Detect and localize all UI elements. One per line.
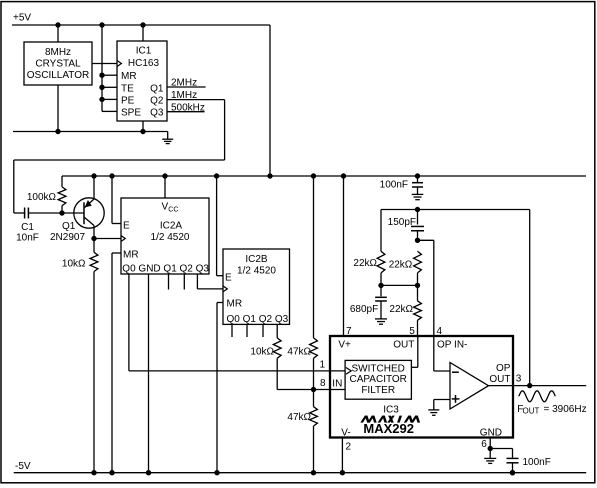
svg-text:6: 6 bbox=[481, 439, 487, 450]
svg-text:IC2A: IC2A bbox=[160, 220, 183, 231]
svg-text:2N2907: 2N2907 bbox=[50, 232, 85, 243]
svg-text:4: 4 bbox=[437, 326, 443, 337]
svg-text:OP IN-: OP IN- bbox=[437, 339, 467, 350]
svg-text:Q3: Q3 bbox=[150, 107, 164, 118]
svg-text:CRYSTAL: CRYSTAL bbox=[35, 59, 81, 70]
svg-text:E: E bbox=[123, 220, 130, 231]
svg-text:7: 7 bbox=[346, 326, 352, 337]
svg-text:100nF: 100nF bbox=[523, 457, 551, 468]
svg-text:10kΩ: 10kΩ bbox=[62, 259, 86, 270]
svg-text:V+: V+ bbox=[338, 339, 351, 350]
svg-text:10nF: 10nF bbox=[16, 233, 39, 244]
svg-text:MAX292: MAX292 bbox=[363, 421, 414, 436]
svg-text:47kΩ: 47kΩ bbox=[287, 347, 311, 358]
svg-text:SPE: SPE bbox=[121, 107, 141, 118]
svg-text:1/2 4520: 1/2 4520 bbox=[237, 265, 276, 276]
svg-text:1MHz: 1MHz bbox=[171, 90, 197, 101]
svg-text:47kΩ: 47kΩ bbox=[287, 412, 311, 423]
svg-text:100kΩ: 100kΩ bbox=[27, 192, 57, 203]
svg-text:2MHz: 2MHz bbox=[171, 78, 197, 89]
svg-text:MR: MR bbox=[121, 71, 137, 82]
svg-text:V-: V- bbox=[341, 427, 350, 438]
svg-text:Q1: Q1 bbox=[62, 221, 76, 232]
svg-text:IN: IN bbox=[332, 378, 342, 389]
svg-text:10kΩ: 10kΩ bbox=[250, 347, 274, 358]
svg-text:TE: TE bbox=[121, 83, 134, 94]
svg-text:3: 3 bbox=[516, 374, 522, 385]
svg-text:OUT: OUT bbox=[393, 339, 414, 350]
svg-text:MR: MR bbox=[123, 250, 139, 261]
svg-text:OUT: OUT bbox=[523, 407, 540, 416]
svg-text:OP: OP bbox=[496, 363, 511, 374]
svg-text:2: 2 bbox=[346, 442, 352, 453]
svg-text:= 3906Hz: = 3906Hz bbox=[544, 404, 587, 415]
svg-text:IC3: IC3 bbox=[383, 405, 399, 416]
svg-text:E: E bbox=[225, 272, 232, 283]
svg-text:Q2: Q2 bbox=[150, 95, 164, 106]
svg-text:CC: CC bbox=[168, 207, 178, 214]
svg-text:-5V: -5V bbox=[15, 461, 31, 472]
svg-text:OSCILLATOR: OSCILLATOR bbox=[27, 70, 89, 81]
svg-text:OUT: OUT bbox=[489, 374, 510, 385]
svg-text:HC163: HC163 bbox=[128, 58, 160, 69]
svg-text:C1: C1 bbox=[21, 222, 34, 233]
svg-text:22kΩ: 22kΩ bbox=[389, 304, 413, 315]
svg-text:FILTER: FILTER bbox=[361, 385, 395, 396]
svg-text:500kHz: 500kHz bbox=[171, 102, 205, 113]
svg-text:PE: PE bbox=[121, 95, 135, 106]
svg-text:5: 5 bbox=[409, 326, 415, 337]
svg-text:8: 8 bbox=[320, 378, 326, 389]
svg-text:Q1: Q1 bbox=[150, 83, 164, 94]
svg-text:+5V: +5V bbox=[13, 12, 31, 23]
svg-text:Q0 GND Q1 Q2 Q3: Q0 GND Q1 Q2 Q3 bbox=[122, 264, 209, 275]
svg-text:22kΩ: 22kΩ bbox=[353, 258, 377, 269]
svg-text:8MHz: 8MHz bbox=[45, 47, 71, 58]
svg-text:MR: MR bbox=[227, 299, 243, 310]
svg-text:IC1: IC1 bbox=[136, 46, 152, 57]
svg-text:Q0 Q1 Q2 Q3: Q0 Q1 Q2 Q3 bbox=[227, 314, 289, 325]
svg-text:IC2B: IC2B bbox=[245, 254, 268, 265]
svg-text:SWITCHED: SWITCHED bbox=[352, 364, 405, 375]
svg-text:1/2 4520: 1/2 4520 bbox=[151, 232, 190, 243]
svg-text:1: 1 bbox=[319, 360, 325, 371]
svg-text:100nF: 100nF bbox=[380, 179, 408, 190]
svg-text:680pF: 680pF bbox=[350, 304, 378, 315]
svg-text:150pF: 150pF bbox=[388, 217, 416, 228]
svg-text:GND: GND bbox=[480, 427, 502, 438]
svg-text:22kΩ: 22kΩ bbox=[389, 259, 413, 270]
svg-text:CAPACITOR: CAPACITOR bbox=[349, 374, 406, 385]
